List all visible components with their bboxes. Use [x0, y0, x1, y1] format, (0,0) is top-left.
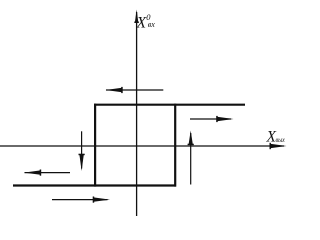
y-axis — [134, 10, 139, 217]
hysteresis loop right vertical — [174, 104, 176, 187]
arrow down left of loop — [79, 131, 85, 171]
arrow left below x-axis left side — [24, 170, 70, 176]
x-axis label Xвых — [266, 128, 286, 145]
hysteresis loop top branch — [94, 104, 245, 106]
svg-text:вх: вх — [148, 20, 155, 29]
arrow right above x-axis right side — [190, 116, 234, 122]
hysteresis loop bottom branch — [13, 184, 176, 186]
hysteresis loop left vertical — [94, 104, 96, 187]
svg-text:X: X — [136, 15, 147, 32]
y-axis label X0вх — [136, 12, 156, 32]
x-axis — [0, 143, 287, 149]
arrow up right of loop — [188, 131, 194, 185]
arrow left on top branch — [106, 87, 164, 93]
svg-text:вых: вых — [276, 135, 286, 144]
arrow right on bottom branch — [52, 197, 110, 203]
